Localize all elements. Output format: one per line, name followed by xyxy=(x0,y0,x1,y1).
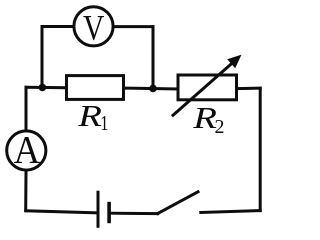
R2 wiper arrowhead xyxy=(227,55,241,69)
wire: voltmeter top right horizontal xyxy=(115,25,154,28)
wire: voltmeter branch left vertical xyxy=(41,27,44,88)
battery cell short plate xyxy=(107,204,111,222)
svg-text:R: R xyxy=(192,101,217,135)
resistor R1 body xyxy=(67,76,124,100)
switch S blade (open) xyxy=(158,192,198,214)
junction node dot right xyxy=(149,85,157,93)
voltmeter V circle xyxy=(74,7,113,46)
junction node dot left xyxy=(39,84,47,92)
wire: bottom horizontal, battery to switch xyxy=(111,212,158,215)
svg-text:A: A xyxy=(14,129,41,172)
wire: left vertical below ammeter xyxy=(24,171,27,210)
wire: voltmeter branch right vertical xyxy=(152,27,155,89)
wire: voltmeter top left horizontal xyxy=(42,25,73,28)
ammeter circle xyxy=(7,131,46,170)
R2 wiper arrow shaft xyxy=(173,62,233,115)
svg-text:1: 1 xyxy=(100,112,108,135)
wire: main horizontal, R1 to R2 xyxy=(124,87,179,91)
svg-text:V: V xyxy=(83,9,105,48)
wire: main horizontal, left corner to R1 xyxy=(26,86,67,89)
svg-text:2: 2 xyxy=(215,116,225,138)
wire: left vertical above ammeter xyxy=(25,87,28,130)
wire: bottom horizontal, left corner to battery xyxy=(26,211,97,213)
wire: bottom horizontal, switch to right corner xyxy=(201,211,260,213)
wire: right vertical xyxy=(259,88,262,210)
resistor R2 body xyxy=(178,75,237,100)
svg-text:R: R xyxy=(77,99,102,133)
wire: main horizontal, R2 to right corner xyxy=(237,87,261,90)
battery cell long plate xyxy=(97,192,100,226)
